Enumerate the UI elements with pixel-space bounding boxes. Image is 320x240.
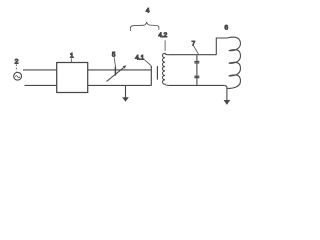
svg-text:4.2: 4.2 <box>158 32 167 39</box>
wire block to transformer bottom <box>88 84 151 86</box>
ground arrow right <box>224 85 231 105</box>
wire source to block top <box>23 69 57 71</box>
label 2 <box>15 59 19 72</box>
capacitor stack 7 <box>194 55 199 86</box>
svg-text:4.1: 4.1 <box>135 55 144 62</box>
wire block to transformer top <box>88 69 151 71</box>
label 4.2 <box>158 32 167 51</box>
primary winding 4.1 <box>150 66 152 86</box>
label 4.1 <box>135 55 151 66</box>
variable element 5 <box>107 65 127 81</box>
svg-text:4: 4 <box>146 8 150 15</box>
svg-text:6: 6 <box>225 25 229 32</box>
wire source to block bottom <box>25 84 57 86</box>
block 1 (power converter) <box>57 63 88 93</box>
wire step up to inductor 6 <box>216 38 227 55</box>
label 5 <box>112 52 116 66</box>
ground arrow left <box>122 86 129 102</box>
wire secondary bottom rail <box>169 84 225 86</box>
label 7 <box>192 40 199 54</box>
AC source 2 <box>14 72 22 80</box>
label 1 <box>70 53 74 63</box>
brace for transformer 4 <box>130 22 159 31</box>
secondary winding 4.2 <box>163 53 169 85</box>
transformer core <box>156 66 158 79</box>
wire secondary top rail <box>169 54 217 56</box>
inductor 6 <box>227 37 240 88</box>
svg-text:1: 1 <box>70 53 74 60</box>
